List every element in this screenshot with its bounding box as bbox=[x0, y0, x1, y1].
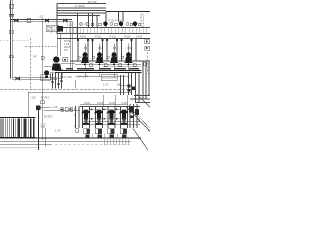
svg-text:3/4": 3/4" bbox=[117, 85, 121, 87]
svg-text:P-102: P-102 bbox=[95, 37, 102, 39]
svg-text:3/4" CW: 3/4" CW bbox=[88, 2, 97, 4]
svg-text:P-202: P-202 bbox=[97, 103, 104, 105]
svg-text:1 1/2": 1 1/2" bbox=[67, 25, 73, 27]
svg-text:NOTE 2: NOTE 2 bbox=[47, 30, 56, 32]
svg-text:1 1/2": 1 1/2" bbox=[52, 107, 58, 109]
svg-text:P-104: P-104 bbox=[124, 37, 131, 39]
svg-text:1 1/2": 1 1/2" bbox=[30, 98, 36, 100]
svg-text:1 1/2": 1 1/2" bbox=[103, 85, 109, 87]
svg-text:2" COND: 2" COND bbox=[75, 6, 85, 8]
svg-text:P-203: P-203 bbox=[109, 103, 116, 105]
svg-text:P-201: P-201 bbox=[84, 103, 91, 105]
svg-text:1 1/2: 1 1/2 bbox=[41, 125, 47, 127]
svg-text:2": 2" bbox=[74, 109, 76, 111]
svg-text:1 1/2" CWS: 1 1/2" CWS bbox=[60, 77, 72, 79]
svg-text:TYP: TYP bbox=[41, 127, 46, 129]
svg-text:1 1/2: 1 1/2 bbox=[64, 44, 70, 46]
svg-text:1 1/2": 1 1/2" bbox=[38, 17, 44, 19]
svg-text:NOTE 3: NOTE 3 bbox=[41, 98, 50, 100]
svg-text:P-204: P-204 bbox=[122, 103, 129, 105]
svg-text:TI 101 TI 102: TI 101 TI 102 bbox=[108, 20, 122, 22]
svg-text:VENT: VENT bbox=[64, 47, 71, 49]
svg-text:NOTE 5: NOTE 5 bbox=[44, 117, 53, 119]
svg-text:1": 1" bbox=[74, 115, 76, 117]
svg-text:P-101: P-101 bbox=[80, 37, 87, 39]
svg-text:3/4" CWR: 3/4" CWR bbox=[78, 77, 88, 79]
svg-text:3/4": 3/4" bbox=[64, 50, 68, 52]
svg-text:NOTE: NOTE bbox=[64, 41, 71, 43]
svg-text:2": 2" bbox=[74, 126, 76, 128]
svg-text:1 1/2": 1 1/2" bbox=[55, 131, 61, 133]
svg-text:V-105: V-105 bbox=[136, 37, 143, 39]
svg-text:1 1/2: 1 1/2 bbox=[42, 78, 48, 80]
svg-text:P-103: P-103 bbox=[110, 37, 117, 39]
svg-text:2": 2" bbox=[51, 32, 53, 34]
svg-text:3/4": 3/4" bbox=[33, 57, 37, 59]
svg-text:D-101 DRAIN: D-101 DRAIN bbox=[103, 76, 117, 79]
